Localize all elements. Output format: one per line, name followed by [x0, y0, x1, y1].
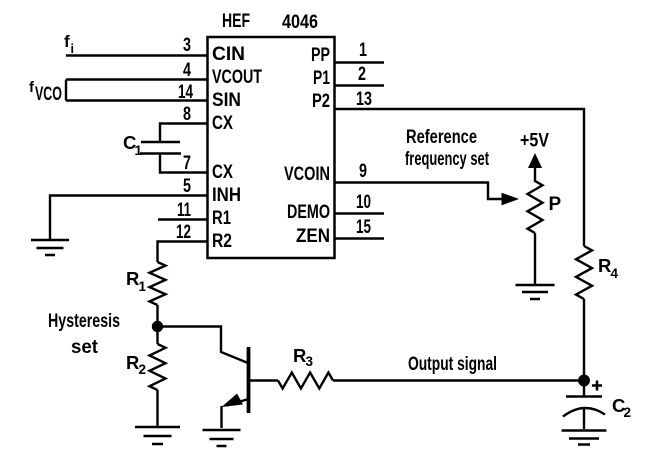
wire pin 7 CX to C1 bottom — [160, 153, 207, 173]
IC U1 HEF4046 body — [208, 37, 335, 258]
svg-text:4: 4 — [611, 266, 619, 281]
svg-text:15: 15 — [356, 217, 371, 238]
svg-text:set: set — [71, 337, 99, 358]
svg-text:+5V: +5V — [520, 131, 549, 152]
wire node to C2 — [583, 380, 585, 396]
svg-text:1: 1 — [135, 143, 143, 158]
polarity label + — [592, 381, 602, 391]
wire C2 to ground — [583, 409, 585, 429]
svg-text:VCO: VCO — [35, 84, 62, 105]
value label C2 — [612, 395, 631, 420]
capacitor C2 — [563, 397, 605, 417]
svg-text:3: 3 — [183, 35, 191, 56]
wire pin 12 R2 down to R1 — [158, 242, 208, 263]
svg-text:Reference: Reference — [406, 127, 477, 148]
svg-text:INH: INH — [212, 185, 241, 206]
pin label R1 — [212, 208, 231, 229]
svg-text:2: 2 — [139, 362, 147, 377]
svg-text:2: 2 — [624, 405, 632, 420]
pin 15 number — [356, 217, 371, 238]
wiper arrow — [502, 193, 520, 206]
svg-text:Output signal: Output signal — [408, 354, 497, 375]
annotation Output signal — [408, 354, 497, 375]
pin 12 number — [176, 222, 191, 243]
svg-text:R: R — [598, 255, 611, 276]
node label f_VCO — [29, 79, 62, 105]
wire pin 14 SIN — [66, 99, 207, 101]
ground (emitter) — [203, 430, 241, 446]
wire pin 8 CX to C1 top — [160, 124, 207, 142]
svg-text:11: 11 — [177, 200, 191, 221]
svg-text:R2: R2 — [212, 231, 232, 252]
wire pin 1 PP stub — [335, 61, 384, 63]
value label P — [549, 194, 562, 215]
wire pin 5 INH to ground — [50, 196, 207, 241]
svg-text:5: 5 — [183, 176, 191, 197]
wire R1 to hysteresis node — [156, 305, 158, 326]
svg-text:R: R — [293, 345, 306, 366]
ground (C2) — [562, 431, 607, 445]
capacitor C1 — [140, 142, 181, 154]
wire node to transistor collector — [158, 327, 249, 364]
wire joining pin 4 and pin 14 at f_VCO — [65, 80, 67, 101]
svg-text:Hysteresis: Hysteresis — [48, 311, 120, 332]
node label f_i — [64, 32, 74, 56]
pin 8 number — [183, 104, 191, 125]
pin label SIN — [212, 90, 241, 111]
svg-text:14: 14 — [178, 82, 193, 103]
transistor Q1 — [222, 347, 249, 413]
potentiometer P — [528, 181, 543, 233]
pin label P1 — [313, 68, 330, 89]
svg-text:P1: P1 — [313, 68, 330, 89]
IC U1 title — [222, 11, 318, 33]
svg-text:SIN: SIN — [212, 90, 241, 111]
pin label VCOIN — [284, 164, 330, 185]
resistor R4 — [576, 246, 592, 299]
svg-text:1: 1 — [359, 40, 367, 61]
resistor R3 — [278, 373, 333, 389]
svg-text:VCOUT: VCOUT — [212, 67, 262, 88]
svg-text:f: f — [64, 32, 70, 51]
svg-text:CIN: CIN — [212, 44, 245, 65]
pin 1 number — [359, 40, 367, 61]
pin label CIN — [212, 44, 245, 65]
svg-text:VCOIN: VCOIN — [284, 164, 330, 185]
svg-text:CX: CX — [212, 113, 233, 134]
svg-text:2: 2 — [358, 64, 366, 85]
pin 14 number — [178, 82, 193, 103]
svg-text:PP: PP — [311, 45, 330, 66]
svg-text:9: 9 — [359, 161, 367, 182]
pin label P2 — [312, 91, 330, 112]
pin label R2 — [212, 231, 232, 252]
wire pin 2 P1 stub — [335, 84, 384, 86]
resistor R2 — [150, 344, 166, 390]
resistor R1 — [150, 262, 166, 305]
wire pin 11 R1 stub — [158, 218, 207, 220]
pin 11 number — [177, 200, 191, 221]
value label R4 — [598, 255, 619, 281]
svg-text:frequency set: frequency set — [405, 149, 489, 170]
wire pin 3 f_i input to CIN — [66, 54, 207, 56]
svg-text:13: 13 — [356, 89, 372, 110]
svg-text:HEF: HEF — [222, 11, 250, 32]
wire pin 9 VCOIN to potentiometer wiper — [335, 183, 503, 200]
pin label DEMO — [287, 202, 330, 223]
svg-text:12: 12 — [176, 222, 191, 243]
wire R3 to output node — [333, 379, 584, 381]
wire R2 to ground — [156, 390, 158, 426]
wire pin 10 DEMO stub — [335, 212, 384, 214]
power +5V label — [520, 131, 549, 152]
wire base to R3 — [249, 379, 278, 381]
svg-text:i: i — [71, 42, 74, 56]
pin label ZEN — [296, 226, 330, 247]
wire potentiometer to ground — [534, 233, 536, 285]
pin 9 number — [359, 161, 367, 182]
wire pin 13 P2 to R4 — [335, 109, 584, 246]
svg-text:3: 3 — [306, 354, 314, 369]
pin label CX (8) — [212, 113, 233, 134]
pin label INH — [212, 185, 241, 206]
wire node to R2 — [156, 326, 158, 344]
wire pin 15 ZEN stub — [335, 237, 384, 239]
pin 2 number — [358, 64, 366, 85]
svg-text:7: 7 — [183, 153, 191, 174]
svg-text:R: R — [126, 268, 139, 289]
value label R2 — [126, 352, 146, 377]
pin label VCOUT — [212, 67, 262, 88]
pin 10 number — [356, 192, 371, 213]
svg-text:P2: P2 — [312, 91, 330, 112]
wire R4 to output node — [583, 299, 585, 380]
pin label CX (7) — [212, 162, 233, 183]
svg-text:R: R — [126, 352, 139, 373]
ground (INH) — [31, 240, 69, 255]
annotation Reference frequency set — [405, 127, 489, 170]
annotation Hysteresis set — [48, 311, 120, 358]
ground (R2) — [135, 427, 180, 444]
+5V arrow — [528, 153, 542, 182]
value label R3 — [293, 345, 314, 369]
pin 5 number — [183, 176, 191, 197]
svg-text:CX: CX — [212, 162, 233, 183]
wire pin 4 VCOUT — [66, 78, 207, 80]
wire emitter to ground — [220, 406, 222, 428]
value label C1 — [123, 132, 143, 158]
value label R1 — [126, 268, 147, 294]
node output junction — [578, 375, 590, 387]
pin 3 number — [183, 35, 191, 56]
pin 7 number — [183, 153, 191, 174]
ground (potentiometer) — [516, 285, 555, 299]
node hysteresis junction — [152, 321, 163, 332]
svg-text:R1: R1 — [212, 208, 231, 229]
svg-text:P: P — [549, 194, 562, 215]
svg-text:8: 8 — [183, 104, 191, 125]
pin label PP — [311, 45, 330, 66]
pin 4 number — [183, 60, 191, 81]
pin 13 number — [356, 89, 372, 110]
svg-text:10: 10 — [356, 192, 371, 213]
svg-text:4046: 4046 — [282, 12, 318, 33]
svg-text:ZEN: ZEN — [296, 226, 330, 247]
svg-text:DEMO: DEMO — [287, 202, 330, 223]
svg-text:4: 4 — [183, 60, 191, 81]
svg-text:1: 1 — [139, 279, 147, 294]
